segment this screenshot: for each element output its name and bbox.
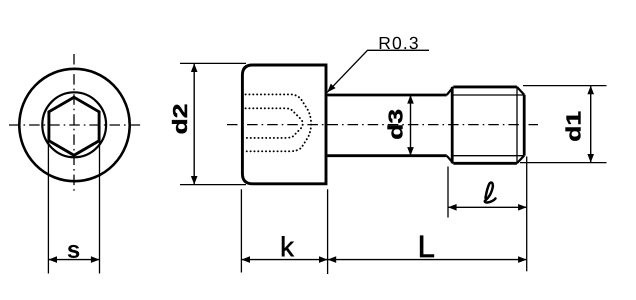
thread root line top (thin) <box>452 94 524 96</box>
thread bottom edge <box>453 162 517 165</box>
chamfer bottom-right <box>517 156 524 164</box>
dimension l (thread length): extension line <box>447 167 449 218</box>
dimension L: right extension line <box>526 157 528 272</box>
shaft bottom edge <box>327 154 446 157</box>
dimension s: extension lines <box>48 140 99 274</box>
label script ell (drawn path) <box>485 183 496 203</box>
shaft top edge <box>327 94 446 97</box>
dimension d1: extension lines <box>520 86 607 163</box>
chamfer top-right <box>517 87 524 95</box>
dimension s: dimension line with arrows <box>48 259 99 261</box>
leader R0.3 <box>327 50 429 92</box>
thread start line (full diameter vertical) <box>451 87 454 163</box>
svg-text:d1: d1 <box>562 111 584 142</box>
svg-text:R0.3: R0.3 <box>378 33 419 53</box>
horizontal centerline <box>9 124 141 126</box>
hex socket (hexagon across flats s) <box>49 97 99 155</box>
side view centerline <box>227 124 538 126</box>
thread end face (right vertical) <box>523 95 526 156</box>
outer circle: head outside diameter d2 <box>19 69 129 181</box>
chamfer boundary line (thin vertical near tip) <box>516 87 518 162</box>
svg-text:k: k <box>280 231 294 262</box>
dimension d2: dimension line <box>193 63 195 184</box>
dimension d3: dimension line <box>410 95 412 156</box>
inner circle: socket circumscribed circle <box>42 92 106 157</box>
thread root line bottom (thin) <box>452 155 524 157</box>
dimension d2: extension lines <box>180 63 246 184</box>
dimension k: dimension line <box>241 259 327 261</box>
head outline (rounded left corners) <box>242 65 326 184</box>
chamfer bottom-left <box>447 156 454 164</box>
svg-text:s: s <box>67 237 80 264</box>
svg-text:d3: d3 <box>384 109 406 140</box>
svg-text:L: L <box>418 229 435 264</box>
dimension l: dimension line <box>448 206 527 208</box>
dimension L: dimension line <box>328 259 527 261</box>
dimension k: extension lines <box>241 189 327 274</box>
dimension d1: dimension line <box>590 86 592 163</box>
chamfer top-left <box>447 87 454 95</box>
hex socket hidden outline (outer, dotted) <box>246 94 312 151</box>
hex socket hidden outline (inner, dotted) <box>246 108 303 138</box>
svg-text:d2: d2 <box>169 104 191 135</box>
vertical centerline <box>73 54 75 193</box>
thread top edge <box>453 85 517 88</box>
